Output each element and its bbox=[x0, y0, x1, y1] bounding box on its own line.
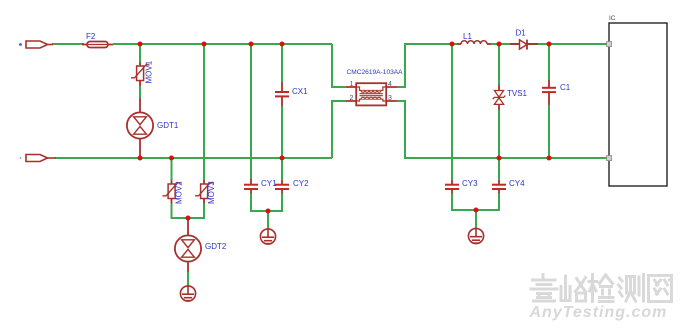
varistor MOV3 bbox=[195, 180, 213, 204]
junction dot bottom rail GDT1 bbox=[138, 156, 143, 161]
svg-text:D1: D1 bbox=[516, 29, 527, 38]
junction dot top rail CY1 bbox=[249, 42, 254, 47]
inductor L1 bbox=[457, 41, 491, 44]
wire bottom rail left bbox=[55, 101, 346, 158]
wire bottom rail right bbox=[397, 101, 609, 158]
wire CX1 CY2 branch bbox=[281, 44, 283, 180]
svg-text:CY1: CY1 bbox=[261, 179, 277, 188]
wire MOV2 MOV3 joint bbox=[172, 204, 205, 219]
capacitor CX1 bbox=[275, 82, 289, 106]
capacitor CY3 bbox=[445, 180, 459, 194]
svg-text:4: 4 bbox=[388, 81, 392, 88]
junction dot bottom rail CX1 CY2 bbox=[280, 156, 285, 161]
junction dot MOV joint bbox=[186, 216, 191, 221]
wire MOV3 branch bbox=[203, 44, 205, 180]
svg-text:MOV1: MOV1 bbox=[145, 60, 154, 83]
svg-text:F2: F2 bbox=[86, 32, 96, 41]
earth ground below CY3 CY4 bbox=[468, 228, 483, 243]
wire C1 branch bbox=[548, 44, 550, 158]
wire D1 segments bbox=[499, 43, 549, 45]
junction dot bottom rail MOV2 bbox=[169, 156, 174, 161]
svg-text:CY4: CY4 bbox=[509, 179, 525, 188]
svg-text:AnyTesting.com: AnyTesting.com bbox=[529, 304, 668, 321]
svg-text:CMC2619A-103AA: CMC2619A-103AA bbox=[347, 69, 404, 76]
svg-text:GDT2: GDT2 bbox=[205, 242, 227, 251]
capacitor CY1 bbox=[244, 179, 258, 194]
wire top rail right bbox=[397, 44, 609, 87]
capacitor C1 bbox=[542, 80, 556, 105]
varistor MOV2 bbox=[163, 180, 181, 204]
svg-text:IC: IC bbox=[609, 15, 616, 22]
wire top rail left bbox=[52, 44, 346, 87]
capacitor CY2 bbox=[275, 180, 289, 194]
wire CY1 branch bbox=[250, 44, 252, 179]
junction dot top rail MOV1 bbox=[138, 42, 143, 47]
earth ground below CY1 CY2 bbox=[260, 229, 275, 244]
wire MOV1 branch bbox=[139, 44, 141, 98]
junction dot top rail CY3 bbox=[450, 42, 455, 47]
svg-text:2: 2 bbox=[350, 95, 354, 102]
diode D1 bbox=[510, 40, 538, 50]
junction dot top rail MOV3 bbox=[202, 42, 207, 47]
wire CY1 CY2 joint bbox=[251, 194, 282, 230]
IC block bbox=[607, 23, 667, 186]
earth ground below GDT2 bbox=[180, 286, 195, 301]
svg-text:CY3: CY3 bbox=[462, 179, 478, 188]
svg-text:CY2: CY2 bbox=[293, 179, 309, 188]
junction dot top rail C1 bbox=[547, 42, 552, 47]
svg-text:GDT1: GDT1 bbox=[157, 121, 179, 130]
junction dot top rail CX1 bbox=[280, 42, 285, 47]
svg-text:L1: L1 bbox=[463, 32, 472, 41]
wire TVS1 CY4 branch bbox=[498, 44, 500, 180]
svg-text:TVS1: TVS1 bbox=[507, 89, 528, 98]
fuse F2 bbox=[82, 42, 113, 48]
gas discharge tube GDT2 bbox=[175, 218, 201, 272]
svg-text:CX1: CX1 bbox=[292, 87, 308, 96]
wire CY3 CY4 joint bbox=[452, 194, 499, 229]
port P2 neutral input bbox=[20, 155, 57, 162]
junction dot CY1 CY2 joint bbox=[266, 209, 271, 214]
wire CY3 branch bbox=[451, 44, 453, 180]
junction dot bottom rail C1 bbox=[547, 156, 552, 161]
wire L1 segments bbox=[452, 43, 499, 45]
wire MOV2 branch bbox=[171, 158, 173, 180]
svg-text:MOV3: MOV3 bbox=[207, 181, 216, 204]
junction dot top rail TVS1 bbox=[497, 42, 502, 47]
watermark bbox=[531, 275, 672, 302]
junction dot CY3 CY4 joint bbox=[474, 208, 479, 213]
common mode choke CMC2619A-103AA bbox=[346, 83, 397, 105]
gas discharge tube GDT1 bbox=[127, 98, 153, 158]
svg-text:3: 3 bbox=[388, 95, 392, 102]
port P1 line input bbox=[19, 41, 53, 48]
svg-text:MOV2: MOV2 bbox=[175, 181, 184, 204]
capacitor CY4 bbox=[492, 180, 506, 194]
TVS diode TVS1 bbox=[493, 85, 506, 110]
varistor MOV1 bbox=[131, 62, 149, 86]
wire GDT2 earth stub bbox=[187, 272, 189, 286]
junction dot bottom rail TVS1 CY4 bbox=[497, 156, 502, 161]
svg-text:1: 1 bbox=[350, 81, 354, 88]
svg-text:C1: C1 bbox=[560, 83, 571, 92]
